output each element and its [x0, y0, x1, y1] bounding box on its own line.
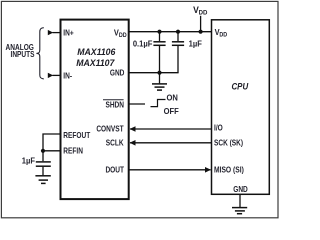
CPU U2 box	[212, 20, 270, 195]
ground symbol G3	[232, 208, 247, 214]
node dot REFIN	[41, 149, 45, 153]
capacitor C2 1uF	[172, 32, 184, 73]
svg-text:ON: ON	[167, 93, 179, 102]
svg-text:1µF: 1µF	[189, 39, 202, 48]
svg-text:REFIN: REFIN	[63, 146, 83, 156]
ground symbol G1	[152, 73, 167, 90]
svg-text:1µF: 1µF	[22, 156, 35, 165]
node dot C1 top	[157, 30, 161, 34]
svg-text:IN-: IN-	[63, 71, 72, 81]
wire CONVST	[130, 128, 212, 130]
pin label VDD (CPU)	[215, 28, 228, 39]
arrow into MISO	[205, 167, 211, 173]
svg-text:OFF: OFF	[164, 107, 179, 116]
svg-text:INPUTS: INPUTS	[10, 49, 34, 59]
wire DOUT	[128, 169, 210, 171]
svg-text:DD: DD	[199, 9, 208, 16]
wire GND pin to caps	[128, 72, 178, 74]
frame border	[1, 1, 278, 217]
svg-text:REFOUT: REFOUT	[63, 130, 90, 140]
svg-text:MAX1107: MAX1107	[76, 58, 115, 68]
svg-text:DD: DD	[119, 33, 127, 39]
label ANALOG INPUTS	[6, 43, 35, 59]
node dot gnd wire	[157, 71, 161, 75]
ground symbol G2	[35, 176, 50, 184]
brace for analog inputs	[36, 28, 43, 79]
arrow into IN+	[48, 30, 53, 35]
VDD supply stem wire	[200, 16, 202, 32]
wire REFIN	[43, 150, 60, 152]
svg-text:MISO (SI): MISO (SI)	[214, 165, 244, 175]
svg-text:GND: GND	[110, 68, 125, 78]
arrow into IN-	[48, 73, 53, 78]
svg-text:SCLK: SCLK	[106, 138, 124, 148]
capacitor C3 1uF	[36, 151, 51, 175]
wire CPU GND stem	[239, 195, 241, 208]
svg-text:CONVST: CONVST	[96, 124, 124, 134]
pin label VDD (U1)	[114, 28, 127, 39]
svg-text:CPU: CPU	[231, 81, 249, 92]
wire SCLK	[130, 142, 212, 144]
arrow into SCLK	[130, 140, 136, 146]
arrow into CONVST	[130, 126, 136, 132]
svg-text:IN+: IN+	[63, 28, 73, 38]
svg-text:DD: DD	[219, 32, 227, 38]
wire IN+	[53, 32, 61, 34]
wire VDD rail	[128, 31, 211, 33]
capacitor C1 0.1uF	[153, 32, 165, 74]
VDD supply label	[193, 5, 208, 17]
wire SHDN	[128, 103, 145, 105]
ADC U1 MAX1106/MAX1107 box	[61, 20, 129, 200]
svg-text:DOUT: DOUT	[105, 165, 124, 175]
switch logic-level glyph	[151, 100, 166, 107]
svg-text:0.1µF: 0.1µF	[133, 39, 153, 48]
svg-text:SCK (SK): SCK (SK)	[214, 138, 244, 148]
node dot VDD stem	[199, 30, 203, 34]
svg-text:SHDN: SHDN	[105, 100, 124, 110]
node dot C2 top	[176, 30, 180, 34]
svg-text:GND: GND	[233, 184, 248, 194]
svg-text:I/O: I/O	[214, 123, 223, 133]
wire REFOUT	[43, 134, 60, 151]
wire IN-	[53, 74, 61, 76]
svg-text:MAX1106: MAX1106	[77, 47, 116, 57]
